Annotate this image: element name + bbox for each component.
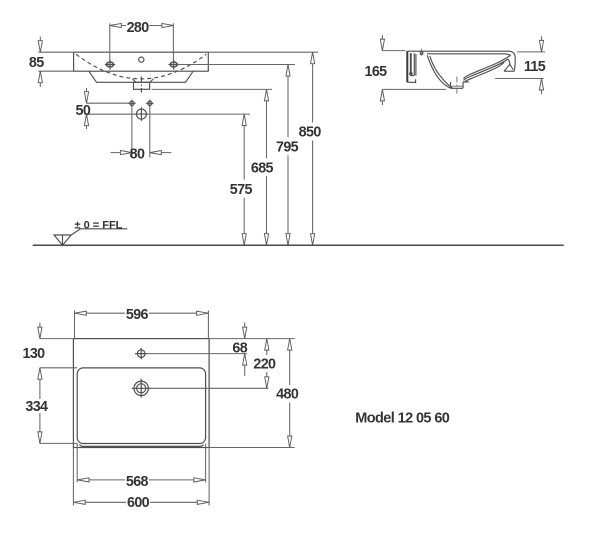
svg-text:130: 130 bbox=[22, 346, 45, 362]
svg-text:795: 795 bbox=[276, 139, 299, 155]
svg-text:68: 68 bbox=[232, 340, 247, 356]
svg-text:85: 85 bbox=[29, 55, 44, 71]
svg-text:600: 600 bbox=[127, 495, 150, 511]
svg-text:596: 596 bbox=[126, 307, 149, 323]
svg-text:50: 50 bbox=[76, 103, 91, 119]
svg-text:334: 334 bbox=[25, 399, 48, 415]
svg-text:115: 115 bbox=[524, 59, 546, 75]
svg-text:Model 12 05 60: Model 12 05 60 bbox=[355, 410, 449, 426]
svg-text:80: 80 bbox=[130, 147, 145, 163]
svg-text:568: 568 bbox=[126, 474, 149, 490]
svg-text:± 0 = FFL: ± 0 = FFL bbox=[75, 219, 123, 231]
svg-text:575: 575 bbox=[230, 182, 253, 198]
svg-text:685: 685 bbox=[251, 161, 274, 177]
svg-text:280: 280 bbox=[127, 20, 150, 36]
svg-text:165: 165 bbox=[364, 64, 387, 80]
svg-text:220: 220 bbox=[253, 357, 276, 373]
svg-text:480: 480 bbox=[276, 387, 299, 403]
svg-text:850: 850 bbox=[299, 125, 322, 141]
